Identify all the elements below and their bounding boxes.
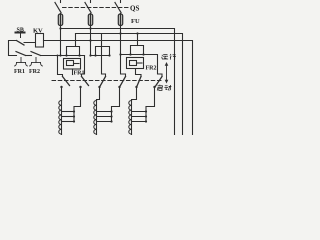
node phase A joins control wire bbox=[59, 54, 61, 56]
heater FR2 box bbox=[127, 58, 144, 69]
wire control loop left vertical bbox=[9, 41, 17, 56]
QS linkage dashed bbox=[63, 7, 129, 9]
switch blade T5 bbox=[137, 77, 141, 87]
wire phase C vertical bbox=[121, 26, 126, 77]
label start (qi dong glyphs) bbox=[157, 85, 171, 91]
autotransformer coil 2 bbox=[94, 101, 113, 136]
wire T2 to tap bus1 bbox=[74, 87, 81, 122]
wire phase A vertical bbox=[60, 26, 62, 56]
svg-text:KV: KV bbox=[33, 28, 43, 35]
contact FR1 (NC) in control loop bbox=[16, 52, 26, 56]
node T2 bottom bbox=[79, 86, 81, 88]
bridge mid phase B bbox=[102, 34, 106, 77]
thermal release symbol FR1 bbox=[15, 58, 28, 67]
wire control corner to switch unit1 bbox=[58, 56, 63, 77]
switch blade T1 bbox=[63, 77, 70, 86]
relay coil KV bbox=[36, 34, 44, 48]
svg-text:FR1: FR1 bbox=[74, 71, 85, 77]
wire T6 to tap bus3 bbox=[146, 87, 155, 122]
node T4 bottom bbox=[118, 86, 120, 88]
fuse FU 1 bbox=[58, 14, 62, 26]
contact FR2 (NC) in control loop bbox=[31, 52, 41, 56]
node phase B on bus1 bbox=[89, 27, 91, 29]
node phase A to bus1 bbox=[59, 27, 61, 29]
svg-text:SB: SB bbox=[17, 28, 24, 34]
node control corner branch bbox=[57, 55, 59, 57]
wire phase B vertical bbox=[90, 26, 92, 56]
transfer switch linkage dashed bbox=[52, 80, 164, 82]
svg-text:FR2: FR2 bbox=[146, 66, 157, 72]
switch QS pole 3 bbox=[115, 3, 121, 13]
wire phase C incoming top bbox=[120, 0, 122, 3]
wire control bottom to phase A bbox=[41, 55, 85, 57]
switch blade T2 bbox=[82, 77, 89, 86]
fuse FU 3 bbox=[118, 14, 122, 26]
arrow run/start positions bbox=[165, 62, 169, 84]
switch blade T4 bbox=[120, 77, 126, 87]
wire T3 to coil2 top bbox=[97, 87, 100, 101]
svg-text:FU: FU bbox=[131, 18, 140, 25]
node T1 bottom bbox=[60, 86, 62, 88]
switch blade T6 bbox=[155, 77, 162, 87]
node phase B on bus3 bbox=[89, 39, 91, 41]
thermal release symbol FR2 bbox=[30, 58, 43, 67]
heater FR1 bridge bbox=[67, 34, 76, 56]
switch QS pole 1 bbox=[55, 3, 61, 13]
wire phase A incoming top bbox=[60, 0, 62, 3]
node T3 bottom bbox=[98, 86, 100, 88]
wire phase C branch to FR2 row bbox=[121, 55, 163, 77]
switch QS pole 2 bbox=[85, 3, 91, 13]
svg-text:QS: QS bbox=[130, 5, 139, 13]
wire phase B incoming top bbox=[90, 0, 92, 3]
label run (yun xing glyphs) bbox=[162, 54, 176, 60]
fuse FU 2 bbox=[88, 14, 92, 26]
wire bus1 to motor (top right) bbox=[61, 29, 175, 136]
wire bus3 to motor (KV line) bbox=[44, 41, 193, 136]
wire T4 to tap bus2 bbox=[112, 87, 120, 122]
heater FR1 box bbox=[64, 59, 81, 70]
autotransformer coil 1 bbox=[59, 101, 75, 136]
pushbutton SB bbox=[16, 33, 36, 46]
wire T1 to coil1 top bbox=[61, 87, 63, 101]
node T6 bottom bbox=[153, 86, 155, 88]
heater FR2 bridge bbox=[137, 34, 139, 46]
wire bus2 to motor bbox=[76, 34, 183, 136]
node T5 bottom bbox=[135, 86, 137, 88]
svg-text:FR1: FR1 bbox=[14, 69, 25, 75]
svg-text:FR2: FR2 bbox=[29, 69, 40, 75]
node phase C on bus2 bbox=[119, 32, 121, 34]
wire FR1 out corner to switch unit2 bbox=[82, 56, 85, 77]
autotransformer coil 3 bbox=[129, 101, 147, 136]
wire phase B bottom bbox=[91, 55, 110, 57]
wire T5 to coil3 top bbox=[132, 87, 137, 101]
switch blade T3 bbox=[100, 77, 106, 87]
